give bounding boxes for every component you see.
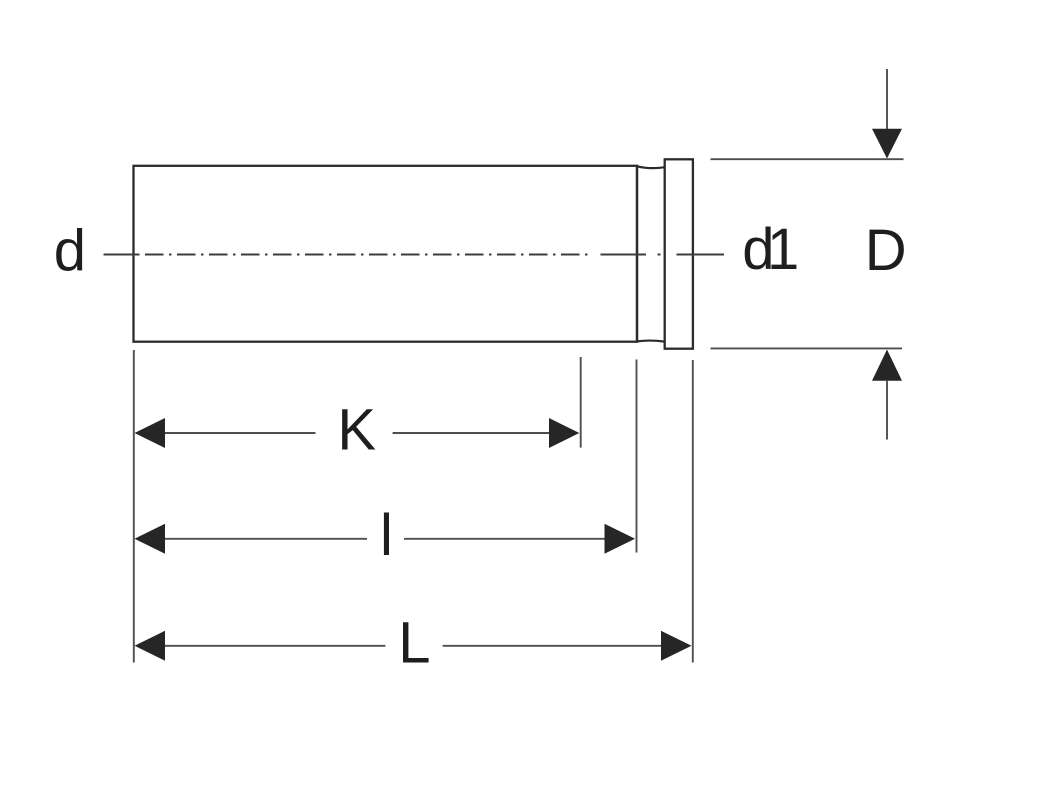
dimension D bottom arrow [872, 350, 902, 381]
dimension D top line [711, 158, 904, 160]
svg-text:K: K [337, 398, 376, 463]
extension line L right (x=692.8) [692, 360, 694, 663]
dimension l line [164, 538, 606, 540]
svg-text:d: d [54, 219, 86, 284]
dimension l right arrow [605, 524, 636, 554]
dimension D bottom line [711, 347, 903, 349]
extension line left (x=133.8) [133, 350, 135, 663]
svg-text:D: D [865, 218, 907, 283]
svg-text:L: L [398, 611, 430, 676]
dimension l left arrow [135, 524, 166, 554]
dimension D top arrow [872, 129, 902, 159]
dimension K left arrow [135, 418, 166, 448]
dimension L line [164, 645, 662, 647]
extension line K right (x=580.7) [580, 357, 582, 448]
socket transition bottom [637, 341, 665, 342]
dimension L right arrow [661, 631, 692, 661]
socket rim [665, 159, 693, 348]
dimension L left arrow [135, 631, 166, 661]
dimension K right arrow [549, 418, 579, 448]
dimension K line [164, 432, 551, 434]
pipe body [134, 166, 638, 342]
pipe end edge [636, 166, 638, 342]
dimension D top arrow tail [886, 69, 888, 130]
svg-text:l: l [380, 503, 393, 568]
svg-text:d1: d1 [742, 217, 797, 282]
socket transition top [637, 166, 665, 168]
extension line l right (x=636.5) [636, 360, 638, 553]
centerline d-d1 [104, 254, 725, 256]
dimension D bottom arrow tail [886, 381, 888, 440]
